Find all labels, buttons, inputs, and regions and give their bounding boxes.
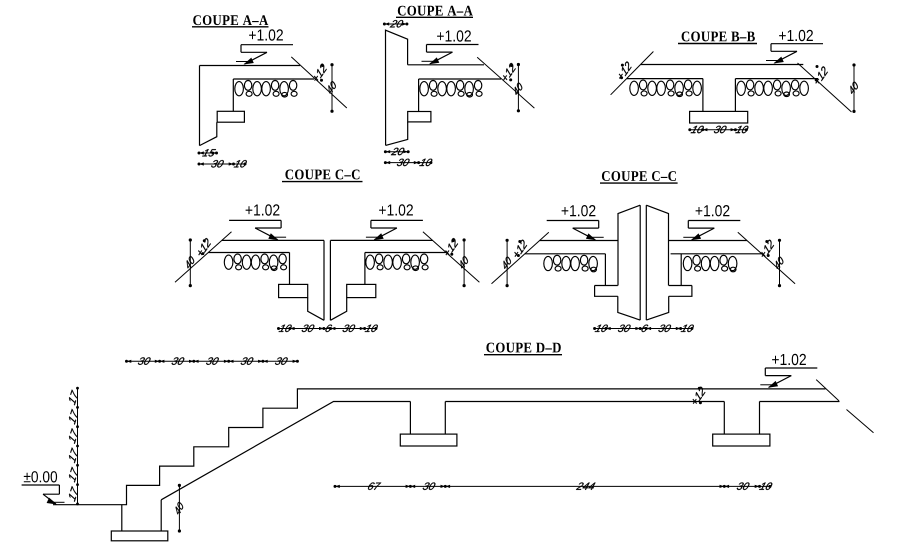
stair steps and slab top line (D-D) (53, 389, 826, 505)
hollow-block hatch ellipses left (C-C 1) (224, 254, 286, 271)
hatch top line (A-A 2) (419, 78, 501, 80)
section cut diagonal (A-A 1) (291, 57, 347, 108)
soffit line right (D-D) (760, 401, 840, 403)
beam taper right (C-C 2) (646, 296, 668, 320)
thickness marker +12 (A-A 1) (314, 64, 327, 82)
wall inner edge above beam (A-A 1) (232, 79, 234, 111)
stair base dimension 40 (D-D) (176, 484, 183, 533)
beam rectangle (A-A 1) (217, 111, 244, 122)
thickness marker +12 left (C-C 2) (514, 240, 527, 257)
level marker flag right (C-C 2) (683, 221, 740, 241)
dimension 67 30 244 30 10 (D-D) (334, 483, 773, 490)
beam taper right (C-C 1) (330, 298, 346, 321)
hatch top line right (C-C 2) (671, 253, 762, 255)
beam rectangle left (C-C 1) (279, 284, 308, 297)
hatch top line (A-A 1) (233, 78, 314, 80)
beam rectangle left (C-C 2) (595, 286, 618, 297)
beam rectangle right (C-C 2) (669, 286, 692, 297)
level marker flag right (C-C 1) (366, 220, 423, 240)
slab top line (A-A 1) (200, 65, 301, 67)
dimension 15 (A-A 1) (198, 149, 219, 156)
hatch end vertical right (C-C 1) (364, 253, 366, 285)
level text +1.02 right (C-C 2) (696, 205, 730, 216)
wall inner edge above beam (A-A 2) (418, 79, 420, 112)
level text +1.02 (D-D) (772, 354, 806, 365)
level text +1.02 (A-A 2) (437, 30, 471, 41)
section cut diagonal right (C-C 2) (738, 232, 795, 283)
dimension 20 top (A-A 2) (383, 20, 409, 27)
slab top line left (C-C 1) (222, 239, 324, 241)
hatch end vertical left (C-C 1) (289, 253, 291, 285)
hatch top line right (C-C 1) (365, 252, 446, 254)
wall outer edge (A-A 1) (199, 66, 201, 146)
level text +1.02 left (C-C 1) (246, 204, 280, 215)
stair soffit slope and landing soffit (D-D) (161, 402, 410, 500)
stair base wall left edge (D-D) (121, 505, 123, 531)
wall inner edge below beam (A-A 2) (386, 122, 408, 145)
dimension 10 30 10 (B-B) (688, 126, 748, 133)
hatch top line left (B-B) (627, 78, 703, 80)
thickness marker +12 right (C-C 1) (445, 238, 458, 256)
level marker flag (B-B) (766, 44, 823, 64)
dimension 20 bottom (A-A 2) (384, 148, 410, 155)
depth dimension 40 (A-A 2) (515, 63, 522, 113)
level text +1.02 (B-B) (779, 30, 813, 41)
hatch end vertical left (C-C 2) (604, 254, 606, 286)
beam stem verticals (B-B) (703, 79, 736, 112)
depth dimension 40 right (C-C 1) (461, 238, 468, 287)
support beam 1 rectangle (D-D) (400, 434, 457, 446)
dimension 30 10 (A-A 2) (384, 159, 433, 166)
section cut diagonal left (C-C 2) (492, 232, 549, 283)
support beam 1 stem (D-D) (410, 402, 445, 435)
hatch top line right (B-B) (735, 78, 818, 80)
support beam 2 rectangle (D-D) (713, 434, 770, 446)
tapered wall outline (A-A 2) (386, 30, 408, 145)
hollow-block hatch ellipses right (B-B) (737, 80, 809, 97)
hollow-block hatch ellipses (A-A 2) (420, 81, 482, 97)
hollow-block hatch ellipses right (C-C 2) (683, 255, 737, 272)
depth dimension 40 left (C-C 2) (504, 239, 511, 288)
hollow-block hatch ellipses (A-A 1) (235, 81, 297, 97)
depth dimension 40 left (C-C 1) (187, 238, 194, 287)
section cut diagonal right (B-B) (798, 63, 852, 112)
beam taper left (C-C 2) (618, 296, 640, 320)
thickness marker +12 (D-D) (693, 387, 706, 405)
slab top line right (C-C 1) (330, 239, 432, 241)
riser dimensions 17x6 (D-D) (69, 387, 79, 506)
beam rectangle (A-A 2) (408, 112, 431, 122)
joint edge right (C-C 1) (329, 240, 331, 320)
wall top and left edge left (C-C 2) (618, 205, 640, 285)
title COUPE D-D (484, 343, 562, 355)
thickness marker +12 left (C-C 1) (198, 238, 211, 255)
thickness marker +12 right (B-B) (815, 65, 828, 84)
support beam 2 stem (D-D) (724, 402, 759, 435)
level marker flag (A-A 1) (236, 45, 293, 65)
beam rectangle right (C-C 1) (347, 284, 376, 297)
title COUPE C-C (section 2) (600, 171, 678, 183)
title COUPE A-A (section 2) (396, 6, 473, 18)
wall joint vertical left (C-C 2) (639, 205, 641, 320)
level marker plus-minus 0.00 (D-D) (22, 471, 65, 504)
section cut diagonal left (C-C 1) (175, 232, 232, 282)
level text +1.02 (A-A 1) (249, 29, 283, 40)
slab top line right (C-C 2) (669, 240, 747, 242)
stair base wall right edge (D-D) (160, 500, 162, 531)
dimension 30 10 (A-A 1) (198, 160, 247, 167)
title COUPE B-B (678, 32, 757, 44)
hollow-block hatch ellipses left (C-C 2) (544, 255, 598, 272)
title COUPE A-A (section 1) (192, 15, 269, 27)
section cut diagonal left (B-B) (611, 52, 654, 95)
thickness marker +12 (A-A 2) (503, 63, 516, 81)
hatch top line left (C-C 1) (208, 252, 289, 254)
dimension 10 30 6 30 10 (C-C 1) (277, 325, 378, 332)
depth dimension 40 (B-B) (850, 63, 857, 113)
section cut diagonal (A-A 2) (477, 57, 534, 108)
wall top and right edge right (C-C 2) (646, 205, 668, 285)
footing rectangle (B-B) (690, 111, 748, 123)
thickness marker +12 right (C-C 2) (761, 240, 774, 257)
level marker flag left (C-C 1) (229, 220, 286, 240)
level text +1.02 right (C-C 1) (379, 204, 413, 215)
beam taper left (C-C 1) (308, 298, 324, 321)
wall joint vertical right (C-C 2) (645, 205, 647, 320)
slab top line left (C-C 2) (540, 240, 618, 242)
hatch top line left (C-C 2) (525, 253, 606, 255)
level marker flag (D-D) (760, 368, 817, 388)
section cut diagonal right (C-C 1) (423, 232, 480, 282)
joint edge left (C-C 1) (323, 240, 325, 320)
depth dimension 40 (A-A 1) (328, 63, 335, 113)
soffit line between beams (D-D) (445, 401, 724, 403)
stair footing rectangle (D-D) (111, 531, 168, 541)
level marker flag left (C-C 2) (547, 221, 604, 241)
hollow-block hatch ellipses right (C-C 1) (366, 254, 428, 271)
hatch end vertical right (C-C 2) (680, 254, 682, 286)
level text +1.02 left (C-C 2) (562, 205, 596, 216)
slab top line (B-B) (641, 64, 804, 66)
thickness marker +12 left (B-B) (619, 62, 632, 80)
title COUPE C-C (section 1) (282, 170, 363, 182)
depth dimension 40 right (C-C 2) (776, 239, 783, 288)
hollow-block hatch ellipses left (B-B) (630, 80, 702, 97)
level marker flag (A-A 2) (422, 45, 479, 65)
wall inner edge below beam (A-A 1) (200, 122, 217, 145)
tread dimensions 30x5 (D-D) (125, 357, 299, 364)
section cut diagonal right (D-D) (816, 380, 873, 433)
dimension 10 30 6 30 10 (C-C 2) (593, 325, 694, 332)
slab top line (A-A 2) (408, 64, 484, 66)
